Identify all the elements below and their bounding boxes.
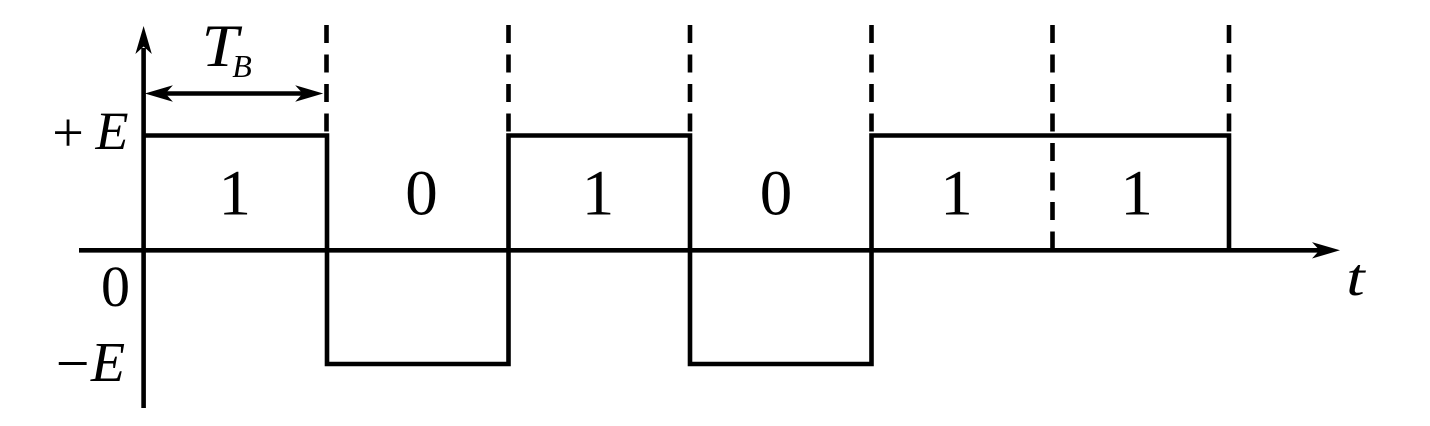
label T_B	[202, 13, 243, 80]
bit boundary dashed line 6	[1227, 25, 1232, 133]
label t (time axis)	[1346, 248, 1366, 306]
bit boundary dashed line 4	[869, 25, 874, 133]
svg-text:E: E	[95, 101, 129, 161]
svg-text:−: −	[56, 331, 90, 397]
svg-text:E: E	[90, 332, 125, 394]
svg-text:+: +	[52, 103, 84, 165]
bit boundary dashed line 2	[506, 25, 511, 133]
svg-text:0: 0	[760, 158, 793, 230]
svg-text:1: 1	[582, 158, 615, 230]
svg-text:t: t	[1346, 248, 1366, 306]
svg-text:B: B	[232, 48, 252, 84]
bit boundary dashed line 3	[688, 25, 693, 133]
svg-text:1: 1	[940, 158, 973, 230]
svg-text:1: 1	[1120, 158, 1153, 230]
bit period double arrow	[145, 85, 323, 101]
bit boundary dashed line 1	[324, 25, 329, 133]
bit boundary dashed line 5 (full height)	[1050, 25, 1055, 249]
svg-text:0: 0	[101, 254, 130, 319]
horizontal time axis	[79, 242, 1340, 258]
NRZ waveform polyline	[144, 136, 1229, 365]
svg-text:1: 1	[218, 158, 251, 230]
vertical amplitude axis	[135, 26, 151, 408]
svg-text:0: 0	[405, 158, 438, 230]
